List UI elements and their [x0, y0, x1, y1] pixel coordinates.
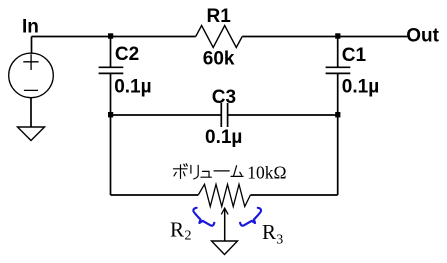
wire top rail left segment: [32, 36, 196, 38]
junction top-right node: [335, 33, 340, 38]
svg-text:60k: 60k: [203, 48, 235, 69]
wire C2 branch down to bottom rail: [110, 115, 112, 195]
junction mid-right node: [335, 112, 340, 117]
svg-text:2: 2: [185, 229, 192, 244]
wire top rail right segment: [242, 36, 407, 38]
wire bottom rail left: [111, 194, 199, 196]
junction top-left node: [108, 33, 113, 38]
brace R2 (left): [193, 208, 214, 226]
label volume (katakana ri): [191, 165, 198, 179]
label R2: [170, 217, 192, 243]
label volume (katakana bo): [174, 164, 188, 179]
junction mid-left node: [108, 112, 113, 117]
svg-text:C3: C3: [212, 87, 236, 108]
svg-text:0.1µ: 0.1µ: [205, 127, 242, 148]
svg-text:R: R: [262, 220, 276, 244]
voltage source V1: [9, 53, 54, 98]
svg-text:10kΩ: 10kΩ: [247, 163, 286, 183]
resistor R1: [196, 26, 243, 48]
label volume (katakana long dash): [214, 170, 229, 172]
label R3: [262, 220, 283, 247]
wire source to ground: [30, 98, 32, 128]
label volume (katakana mu): [231, 166, 243, 177]
wire middle rail left: [111, 114, 222, 116]
capacitor C2: [99, 37, 124, 116]
svg-text:R: R: [170, 217, 184, 241]
potentiometer wiper arrow: [221, 208, 228, 241]
ground (wiper): [212, 241, 238, 255]
svg-text:3: 3: [276, 232, 283, 247]
capacitor C3: [221, 103, 227, 127]
wire C1 branch down to bottom rail: [337, 115, 339, 195]
wire middle rail right: [228, 114, 338, 116]
svg-text:R1: R1: [207, 6, 232, 27]
svg-text:0.1µ: 0.1µ: [114, 77, 151, 98]
svg-text:C1: C1: [342, 45, 367, 66]
svg-text:C2: C2: [115, 44, 139, 65]
svg-text:In: In: [22, 17, 39, 38]
wire In lead down to source: [31, 37, 33, 54]
wire bottom rail right: [250, 194, 337, 196]
svg-text:Out: Out: [406, 26, 439, 47]
capacitor C1: [326, 37, 351, 116]
ground (input side): [18, 127, 45, 141]
brace R3 (right): [240, 208, 261, 226]
label volume (katakana small yu): [201, 171, 211, 177]
svg-text:0.1µ: 0.1µ: [342, 77, 379, 98]
potentiometer resistor element: [198, 184, 250, 206]
